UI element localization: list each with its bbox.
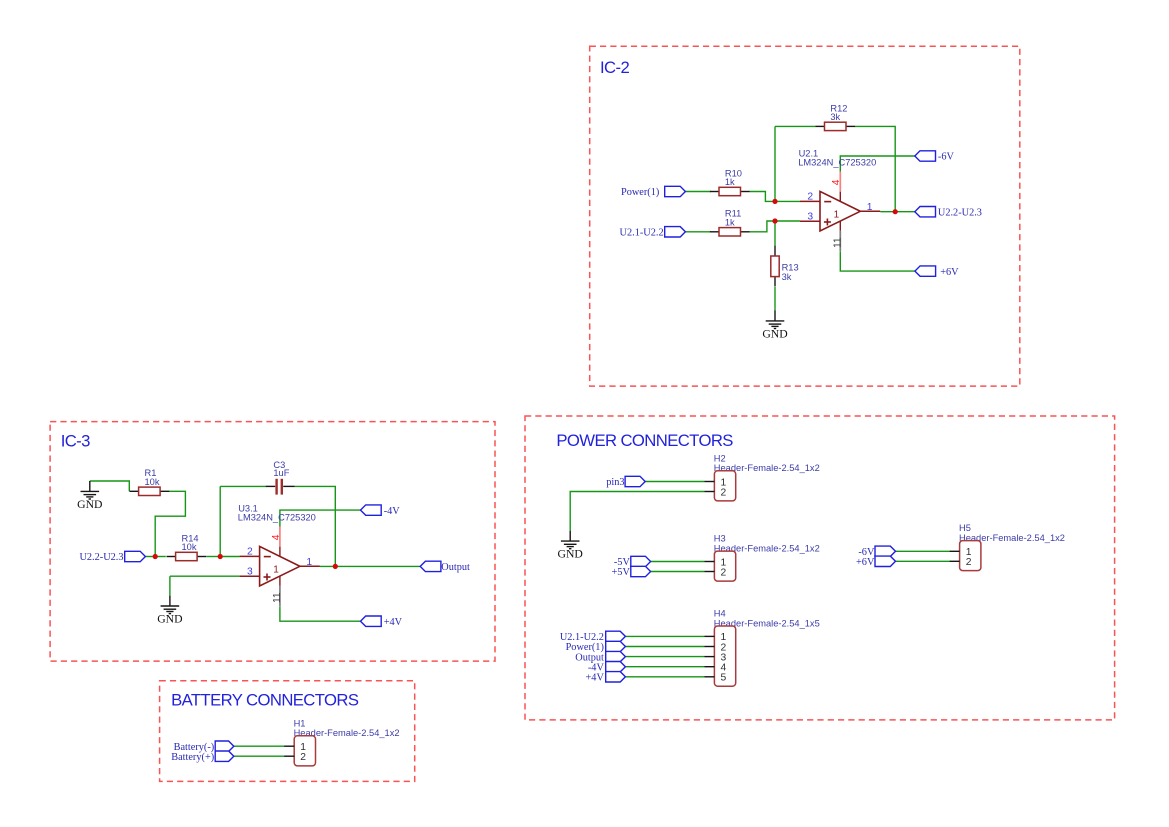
wire pin3 to H2.1 [645,481,704,483]
wire node to U2.1 pin2 [775,200,800,202]
svg-text:3: 3 [807,211,813,222]
svg-text:11: 11 [833,237,844,248]
port +6V (H5) [856,556,896,568]
wire R13 to GND [774,287,776,311]
wire -6V to pin4 [840,156,915,172]
block frame IC-2 [590,46,1020,386]
wire +4V to pin11 [280,606,361,621]
svg-text:+6V: +6V [856,557,875,568]
svg-text:pin3: pin3 [606,477,624,488]
svg-text:H1: H1 [294,718,306,728]
port pin3 [606,476,645,488]
svg-text:GND: GND [157,612,182,625]
wire GND to H2.2 [570,492,704,531]
svg-text:U2.2-U2.3: U2.2-U2.3 [79,552,123,563]
svg-text:Output: Output [441,562,470,573]
port Power(1) (H4) [566,641,626,653]
svg-text:2: 2 [966,557,972,568]
svg-text:U2.2-U2.3: U2.2-U2.3 [938,207,982,218]
port U2.2-U2.3 [915,207,982,219]
svg-text:4: 4 [271,534,282,540]
junction C3 node [218,554,223,559]
wire U2.1 output to U2.2-U2.3 flag [880,211,915,213]
svg-text:Power(1): Power(1) [621,187,659,198]
svg-text:3k: 3k [782,272,792,282]
port +6V [915,266,959,278]
wire -5V to H3.1 [651,561,705,563]
block frame POWER CONNECTORS [525,416,1115,720]
pin 2 lead [950,560,960,562]
svg-text:IC-3: IC-3 [61,432,90,451]
junction node pin3 [772,218,777,223]
junction input node [153,554,158,559]
port -6V [915,151,955,163]
svg-text:1k: 1k [725,177,735,187]
svg-text:2: 2 [300,752,306,763]
ground GND (IC-3 upper) [77,481,102,511]
wire feedback left vertical [774,126,776,201]
wire U2.2-U2.3 flag to node [145,556,155,558]
block frame BATTERY CONNECTORS [160,681,415,782]
svg-text:IC-2: IC-2 [600,58,629,77]
svg-text:GND: GND [77,498,102,511]
svg-text:LM324N_C725320: LM324N_C725320 [238,513,316,523]
wire down to GND [169,576,171,595]
svg-text:1uF: 1uF [273,468,289,478]
connector H2 [705,453,820,500]
wire C3 left vertical [219,486,221,556]
wire to R12 left [775,125,815,127]
svg-text:5: 5 [721,673,727,684]
wire +6V to H5.2 [896,560,951,562]
resistor R11 [710,209,750,236]
svg-text:4: 4 [831,179,842,185]
svg-text:+4V: +4V [384,617,403,628]
svg-text:H2: H2 [714,453,726,463]
wire Output to H4.3 [625,656,704,658]
wire -6V to H5.1 [896,550,951,552]
svg-text:H3: H3 [714,534,726,544]
wire R1 to input node [155,491,185,556]
pin 1 lead [705,635,715,637]
svg-text:10k: 10k [145,477,160,487]
svg-text:2: 2 [721,487,727,498]
wire U3.1 output to Output flag [320,565,420,567]
port +4V (H4) [585,672,625,684]
port U2.1-U2.2 [620,227,686,239]
pin 2 lead [705,646,715,648]
wire node to U3.1 pin2 [220,556,239,558]
svg-text:10k: 10k [182,542,197,552]
wire Battery(-) to H1.1 [234,745,285,747]
port U2.2-U2.3 (IC-3) [79,551,145,563]
svg-text:1: 1 [306,557,312,568]
wire +5V to H3.2 [651,571,705,573]
port Output [420,561,470,573]
pin 1 lead [705,561,715,563]
port -4V [361,505,401,517]
pin 2 lead [705,571,715,573]
wire R11 to node pin3 [750,221,776,232]
ground GND (IC-2) [762,311,787,341]
junction node pin2 [772,199,777,204]
wire GND to R1 [90,481,130,491]
pin 2 lead [705,491,715,493]
resistor R10 [710,168,750,195]
junction output node (IC-3) [333,564,338,569]
svg-text:1: 1 [867,202,873,213]
resistor R14 [167,533,207,560]
connector H5 [950,523,1065,570]
port Battery(+) [171,751,234,763]
svg-text:POWER CONNECTORS: POWER CONNECTORS [556,431,733,450]
capacitor C3 [266,460,295,495]
port +4V [361,616,403,628]
port Battery(-) [174,741,234,753]
svg-text:H4: H4 [714,609,726,619]
wire node to R14 [155,556,166,558]
wire -4V to H4.4 [625,666,704,668]
pin 5 lead [705,676,715,678]
wire U2.1-U2.2 to R11 [685,231,711,233]
svg-text:-4V: -4V [384,506,401,517]
op-amp U2.1 [798,148,880,251]
port U2.1-U2.2 (H4) [560,631,626,643]
connector H4 [705,609,820,687]
port Output (H4) [575,651,625,663]
svg-text:+5V: +5V [611,567,630,578]
resistor R13 [771,246,799,287]
port -6V (H5) [858,546,895,558]
pin 2 lead [284,755,294,757]
wire U2.1-U2.2 to H4.1 [625,635,704,637]
svg-text:LM324N_C725320: LM324N_C725320 [798,158,876,168]
resistor R12 [815,103,855,130]
svg-text:GND: GND [558,548,583,561]
svg-text:3k: 3k [830,112,840,122]
svg-text:Battery(+): Battery(+) [171,752,214,763]
svg-text:2: 2 [721,567,727,578]
junction output node [893,209,898,214]
port +5V [611,566,650,578]
wire Power(1) to H4.2 [625,646,704,648]
wire R10 to node pin2 [750,192,776,202]
wire Battery(+) to H1.2 [234,755,285,757]
pin 4 lead [705,666,715,668]
port -4V (H4) [588,662,626,674]
wire C3 right to output node [295,486,336,566]
resistor R1 [130,468,170,495]
svg-text:BATTERY CONNECTORS: BATTERY CONNECTORS [171,691,359,710]
pin 3 lead [705,656,715,658]
svg-text:1: 1 [273,564,279,575]
wire pin3 to GND corner [170,575,240,577]
wire Power(1) to R10 [685,191,711,193]
wire -4V to pin4 [280,510,361,526]
wire +6V to pin11 [840,251,915,271]
connector H1 [284,718,399,765]
svg-text:+4V: +4V [585,673,604,684]
svg-text:H5: H5 [959,523,971,533]
ground GND (power block) [558,531,583,561]
connector H3 [705,534,820,581]
svg-text:+6V: +6V [940,267,959,278]
ground GND (IC-3 lower) [157,596,182,626]
pin 1 lead [284,745,294,747]
wire R14 to node [206,556,220,558]
svg-text:U2.1-U2.2: U2.1-U2.2 [620,228,664,239]
svg-text:1: 1 [834,209,840,220]
wire node to R13 [774,221,776,246]
wire to C3 left [220,485,265,487]
block frame IC-3 [50,422,495,661]
wire node to U2.1 pin3 [775,220,800,222]
port -5V [614,556,651,568]
svg-text:3: 3 [247,566,253,577]
wire R12 right to output node [855,126,895,211]
svg-text:1k: 1k [725,218,735,228]
pin 1 lead [705,481,715,483]
svg-text:2: 2 [247,547,253,558]
wire +4V to H4.5 [625,676,704,678]
svg-text:11: 11 [272,592,283,603]
port Power(1) [621,186,685,198]
svg-text:GND: GND [762,327,787,340]
svg-text:2: 2 [807,192,813,203]
svg-text:-6V: -6V [938,152,955,163]
op-amp U3.1 [238,503,320,606]
pin 1 lead [950,550,960,552]
